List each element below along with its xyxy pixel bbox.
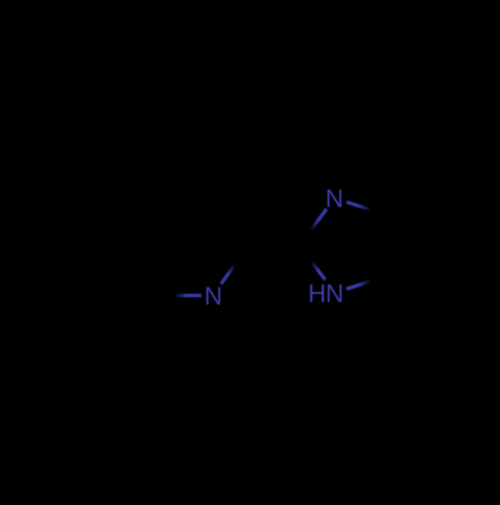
svg-text:N: N — [326, 280, 344, 308]
svg-text:H: H — [308, 280, 326, 308]
svg-text:N: N — [325, 185, 343, 213]
svg-text:N: N — [204, 283, 222, 311]
